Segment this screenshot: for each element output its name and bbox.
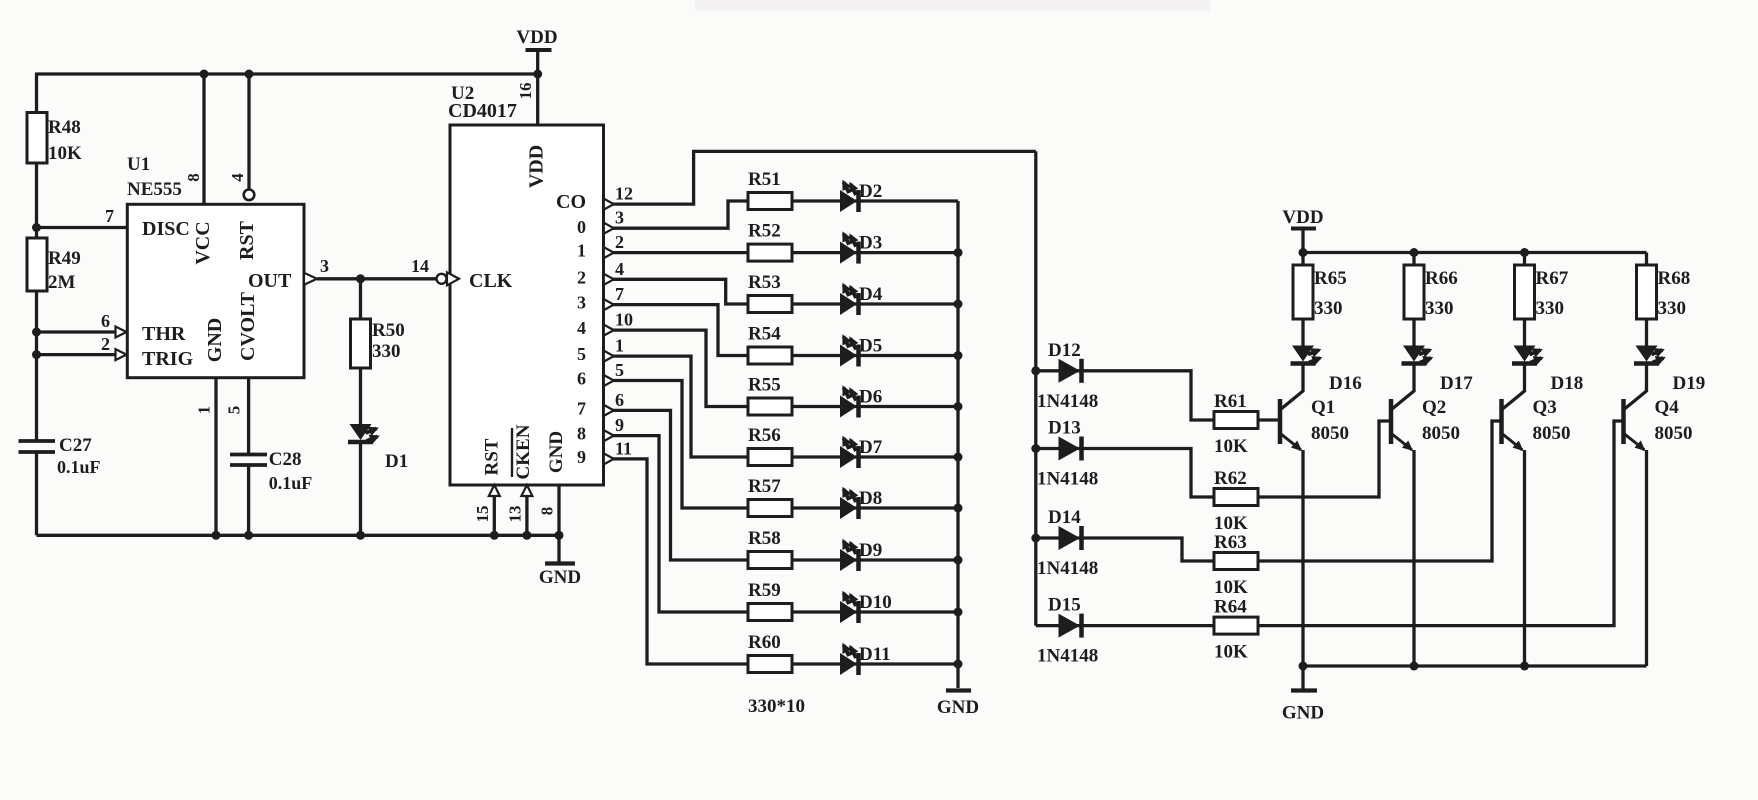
LED D2 <box>840 190 857 212</box>
svg-text:Q4: Q4 <box>1655 397 1680 418</box>
svg-text:D13: D13 <box>1048 418 1081 439</box>
LED D7 <box>840 446 857 468</box>
svg-text:D4: D4 <box>859 284 883 305</box>
svg-text:330: 330 <box>1536 298 1565 319</box>
svg-text:CD4017: CD4017 <box>448 100 517 122</box>
svg-text:330: 330 <box>372 341 401 362</box>
resistor R53 <box>748 296 792 313</box>
resistor R68 <box>1637 265 1657 319</box>
svg-text:R57: R57 <box>748 476 781 497</box>
pin U2 #5 <box>604 375 614 386</box>
wire GND pin 8 <box>557 485 560 535</box>
wire base Q2 from R62 <box>1258 421 1391 497</box>
svg-text:THR: THR <box>142 323 186 345</box>
svg-text:GND: GND <box>539 567 581 588</box>
resistor R55 <box>748 398 792 415</box>
pin U2 #1 <box>604 351 614 362</box>
wire base Q4 from R64 <box>1258 421 1624 626</box>
diode D13 <box>1059 437 1081 461</box>
svg-text:8050: 8050 <box>1311 423 1349 444</box>
svg-text:6: 6 <box>577 369 586 389</box>
wire R65 feed <box>1301 253 1304 267</box>
svg-text:330: 330 <box>1658 298 1687 319</box>
svg-text:GND: GND <box>937 697 979 718</box>
wire row R59 <box>748 610 958 613</box>
wire RST pin 15 <box>489 485 500 496</box>
svg-text:R67: R67 <box>1536 268 1569 289</box>
svg-text:330: 330 <box>1425 298 1454 319</box>
LED D6 <box>840 396 857 418</box>
svg-text:9: 9 <box>615 415 624 435</box>
wire U2 pin 10 to R55 <box>613 330 749 406</box>
svg-text:10K: 10K <box>1214 513 1248 534</box>
svg-text:10K: 10K <box>1214 436 1248 457</box>
svg-text:16: 16 <box>516 83 535 100</box>
svg-text:R63: R63 <box>1214 532 1247 553</box>
svg-text:D16: D16 <box>1329 373 1362 394</box>
wire row R53 <box>748 302 958 305</box>
svg-text:330: 330 <box>1314 298 1343 319</box>
svg-text:5: 5 <box>615 360 624 380</box>
junction <box>200 70 209 79</box>
wire R67 feed <box>1523 253 1526 267</box>
svg-text:GND: GND <box>204 318 226 362</box>
LED D10 <box>840 601 857 623</box>
diode D12 <box>1059 359 1081 383</box>
svg-text:R66: R66 <box>1425 268 1458 289</box>
pin U2 #4 <box>604 274 614 285</box>
wire U2 pin 5 to R57 <box>613 381 749 509</box>
svg-text:6: 6 <box>101 311 110 331</box>
svg-text:D2: D2 <box>859 181 882 202</box>
wire row R55 <box>748 405 958 408</box>
wire <box>35 452 38 535</box>
svg-text:10K: 10K <box>1214 642 1248 663</box>
svg-text:D10: D10 <box>859 592 892 613</box>
svg-text:7: 7 <box>105 206 114 226</box>
svg-text:R65: R65 <box>1314 268 1347 289</box>
wire base Q1 from R61 <box>1258 418 1280 421</box>
wire left branch vertical <box>35 73 38 442</box>
svg-text:R53: R53 <box>748 272 781 293</box>
svg-text:VCC: VCC <box>192 221 214 264</box>
svg-text:R60: R60 <box>748 632 781 653</box>
svg-text:D15: D15 <box>1048 595 1081 616</box>
wire U2 pin 2 to R52 <box>613 251 749 254</box>
LED D8 <box>840 497 857 519</box>
svg-text:11: 11 <box>615 438 632 458</box>
resistor R54 <box>748 347 792 364</box>
svg-text:R58: R58 <box>748 528 781 549</box>
LED D11 <box>840 653 857 675</box>
wire U2 pin 7 to R54 <box>613 305 749 356</box>
capacitor C28 <box>230 453 267 457</box>
svg-text:D12: D12 <box>1048 340 1081 361</box>
svg-text:R54: R54 <box>748 324 781 345</box>
svg-text:4: 4 <box>228 173 247 182</box>
capacitor C27 <box>25 443 48 451</box>
svg-text:R59: R59 <box>748 580 781 601</box>
pin U2 #6 <box>604 405 614 416</box>
wire row R52 <box>748 251 958 254</box>
transistor Q2 <box>1389 399 1394 444</box>
junction <box>1031 366 1040 375</box>
wire U2 pin 9 to R59 <box>613 436 749 612</box>
ground (LED bus) <box>946 688 971 692</box>
svg-text:4: 4 <box>577 318 586 338</box>
svg-text:0.1uF: 0.1uF <box>269 473 313 493</box>
LED D3 <box>840 242 857 264</box>
resistor R60 <box>748 656 792 673</box>
wire row R54 <box>748 354 958 357</box>
resistor R66 <box>1404 265 1424 319</box>
svg-text:NE555: NE555 <box>127 179 182 200</box>
transistor Q1 <box>1278 399 1283 444</box>
svg-text:R64: R64 <box>1214 597 1247 618</box>
svg-text:C28: C28 <box>269 449 302 470</box>
wire U2 pin 4 to R53 <box>613 279 749 304</box>
svg-text:15: 15 <box>473 506 492 523</box>
resistor R62 <box>1214 489 1258 506</box>
svg-text:GND: GND <box>1282 703 1324 724</box>
svg-text:R55: R55 <box>748 375 781 396</box>
svg-text:12: 12 <box>615 184 633 204</box>
resistor R63 <box>1214 553 1258 570</box>
junction <box>954 248 963 257</box>
resistor R57 <box>748 500 792 517</box>
svg-text:3: 3 <box>320 256 329 276</box>
svg-text:1N4148: 1N4148 <box>1037 469 1098 490</box>
svg-text:R56: R56 <box>748 425 781 446</box>
wire RST pin 4 <box>247 74 250 190</box>
pin bubble CLK <box>437 274 447 284</box>
wire THR pin 6 <box>37 330 117 333</box>
svg-text:10K: 10K <box>1214 577 1248 598</box>
svg-text:8: 8 <box>577 424 586 444</box>
pin U2 #3 <box>604 223 614 234</box>
svg-text:D1: D1 <box>385 451 408 472</box>
wire D15 row <box>1036 624 1215 627</box>
svg-text:2: 2 <box>101 334 110 354</box>
svg-text:8: 8 <box>184 173 203 182</box>
wire row R58 <box>748 558 958 561</box>
faint scanner band <box>695 0 1210 11</box>
wire D12 row <box>1036 371 1215 420</box>
svg-text:D8: D8 <box>859 488 882 509</box>
resistor R48 <box>27 113 47 164</box>
svg-text:RST: RST <box>236 220 258 260</box>
svg-text:VDD: VDD <box>1282 207 1323 228</box>
wire DISC pin 7 <box>37 226 128 229</box>
svg-text:4: 4 <box>615 259 624 279</box>
pin U2 #7 <box>604 299 614 310</box>
diode D14 <box>1059 526 1081 550</box>
resistor R65 <box>1293 265 1313 319</box>
svg-text:DISC: DISC <box>142 218 190 240</box>
svg-text:D6: D6 <box>859 387 882 408</box>
wire D13 row <box>1036 449 1215 498</box>
svg-text:6: 6 <box>615 390 624 410</box>
svg-text:D5: D5 <box>859 336 882 357</box>
pin U2 #9 <box>604 430 614 441</box>
svg-text:D3: D3 <box>859 233 882 254</box>
svg-text:CO: CO <box>556 191 586 213</box>
diode D15 <box>1059 614 1081 638</box>
LED D5 <box>840 345 857 367</box>
wire top VDD rail <box>37 72 538 75</box>
resistor R67 <box>1515 265 1535 319</box>
wire U2 pin 11 to R60 <box>613 459 749 664</box>
svg-text:CVOLT: CVOLT <box>237 291 259 361</box>
svg-text:VDD: VDD <box>526 145 548 188</box>
wire diode bus from CO <box>1034 151 1037 625</box>
junction <box>212 531 221 540</box>
svg-text:VDD: VDD <box>516 27 557 48</box>
svg-text:CKEN: CKEN <box>513 424 534 479</box>
svg-text:Q2: Q2 <box>1422 397 1446 418</box>
svg-text:R68: R68 <box>1658 268 1691 289</box>
wire row R60 <box>748 662 958 665</box>
resistor R64 <box>1214 617 1258 634</box>
resistor R51 <box>748 193 792 210</box>
svg-text:3: 3 <box>615 208 624 228</box>
svg-text:R62: R62 <box>1214 468 1247 489</box>
svg-text:1: 1 <box>615 336 624 356</box>
wire U2 pin 3 to R51 <box>613 201 749 228</box>
svg-text:R52: R52 <box>748 221 781 242</box>
svg-text:RST: RST <box>482 438 503 475</box>
wire U2 pin 12 (CO) to diode bus <box>613 151 1036 204</box>
svg-text:14: 14 <box>411 256 429 276</box>
wire bottom GND rail (555) <box>37 534 561 537</box>
svg-text:8050: 8050 <box>1655 423 1693 444</box>
pin U2 #2 <box>604 247 614 258</box>
resistor R52 <box>748 244 792 261</box>
IC U1 NE555 box <box>127 204 304 377</box>
svg-text:330*10: 330*10 <box>748 696 805 717</box>
svg-text:U1: U1 <box>127 154 150 175</box>
svg-text:8: 8 <box>538 507 557 516</box>
svg-text:D18: D18 <box>1551 373 1584 394</box>
svg-text:0: 0 <box>577 217 586 237</box>
svg-text:3: 3 <box>577 293 586 313</box>
svg-text:8050: 8050 <box>1422 423 1460 444</box>
svg-text:C27: C27 <box>59 435 92 456</box>
svg-text:R49: R49 <box>48 248 81 269</box>
wire U2 pin 1 to R56 <box>613 356 749 457</box>
svg-text:1: 1 <box>577 241 586 261</box>
svg-text:1N4148: 1N4148 <box>1037 558 1098 579</box>
resistor R56 <box>748 449 792 466</box>
pin U2 #10 <box>604 325 614 336</box>
resistor R59 <box>748 604 792 621</box>
IC U2 CD4017 box <box>450 125 604 485</box>
resistor R49 <box>27 238 47 291</box>
wire R68 feed <box>1645 253 1648 267</box>
pin U2 #11 <box>604 453 614 464</box>
svg-text:10K: 10K <box>48 143 82 164</box>
svg-text:Q3: Q3 <box>1533 397 1557 418</box>
svg-text:1: 1 <box>195 406 214 415</box>
svg-text:13: 13 <box>506 506 525 523</box>
svg-text:GND: GND <box>546 431 567 473</box>
svg-text:5: 5 <box>577 344 586 364</box>
wire bottom GND rail (right) <box>1303 664 1647 667</box>
LED D16 <box>1301 319 1304 346</box>
ground (right) <box>1301 666 1304 689</box>
svg-text:D9: D9 <box>859 540 882 561</box>
wire <box>247 465 250 535</box>
wire D14 row <box>1036 538 1215 561</box>
LED D4 <box>840 293 857 315</box>
svg-text:2: 2 <box>615 232 624 252</box>
resistor R61 <box>1214 412 1258 429</box>
LED D19 <box>1645 319 1648 346</box>
svg-text:7: 7 <box>577 398 586 418</box>
wire CKEN pin 13 <box>521 485 532 496</box>
transistor Q3 <box>1499 399 1504 444</box>
svg-text:R48: R48 <box>48 117 81 138</box>
svg-text:9: 9 <box>577 447 586 467</box>
svg-text:D11: D11 <box>859 644 891 665</box>
svg-text:TRIG: TRIG <box>142 348 194 370</box>
svg-text:Q1: Q1 <box>1311 397 1335 418</box>
wire VCC pin 8 <box>202 74 205 204</box>
junction <box>1299 662 1308 671</box>
svg-text:CLK: CLK <box>469 270 513 292</box>
svg-text:R51: R51 <box>748 169 781 190</box>
wire U2 pin 6 to R58 <box>613 410 749 560</box>
svg-text:5: 5 <box>224 406 243 415</box>
svg-text:OUT: OUT <box>248 270 292 292</box>
svg-text:0.1uF: 0.1uF <box>57 457 101 477</box>
wire R66 feed <box>1412 253 1415 267</box>
wire VDD rail (right) <box>1303 251 1647 254</box>
junction <box>1299 248 1308 257</box>
wire base Q3 from R63 <box>1258 421 1502 561</box>
LED D1 <box>359 368 362 424</box>
svg-text:D7: D7 <box>859 437 883 458</box>
svg-text:R61: R61 <box>1214 391 1247 412</box>
svg-text:1N4148: 1N4148 <box>1037 646 1098 667</box>
svg-text:D17: D17 <box>1440 373 1473 394</box>
pin U2 #12 <box>604 199 614 210</box>
svg-text:10: 10 <box>615 310 633 330</box>
wire row R57 <box>748 506 958 509</box>
svg-text:R50: R50 <box>372 320 405 341</box>
LED D18 <box>1523 319 1526 346</box>
wire OUT pin 3 to CLK <box>304 273 317 285</box>
wire TRIG pin 2 <box>37 353 117 356</box>
LED D17 <box>1412 319 1415 346</box>
wire LED cathode bus <box>956 201 959 688</box>
svg-text:7: 7 <box>615 284 624 304</box>
ground (U2) <box>557 535 560 562</box>
LED D9 <box>840 549 857 571</box>
wire GND pin 1 <box>214 378 217 536</box>
wire row R56 <box>748 455 958 458</box>
resistor R50 <box>359 279 362 320</box>
wire row R51 <box>748 199 958 202</box>
transistor Q4 <box>1621 399 1626 444</box>
svg-text:8050: 8050 <box>1533 423 1571 444</box>
svg-text:2: 2 <box>577 267 586 287</box>
svg-text:2M: 2M <box>48 272 76 293</box>
resistor R58 <box>748 552 792 569</box>
svg-text:D19: D19 <box>1673 373 1706 394</box>
wire CVOLT pin 5 <box>247 378 250 455</box>
svg-text:1N4148: 1N4148 <box>1037 391 1098 412</box>
svg-text:D14: D14 <box>1048 507 1081 528</box>
